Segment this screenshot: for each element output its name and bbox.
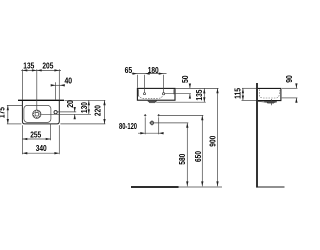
siphon outlet symbol	[149, 120, 154, 125]
dim 135 (front right, rim to drain bottom)	[156, 88, 206, 102]
dim 900 (rim height)	[176, 88, 219, 186]
svg-text:650: 650	[194, 151, 203, 162]
svg-text:135: 135	[23, 62, 34, 71]
basin front outline	[137, 88, 175, 100]
mounting bolts (front)	[144, 114, 160, 117]
dim 20 (tap hole CL to drain CL)	[41, 100, 91, 119]
dim 90 (side right)	[282, 75, 298, 103]
dim 340 (plan bottom)	[22, 125, 59, 154]
svg-text:130: 130	[80, 102, 89, 113]
svg-text:135: 135	[195, 89, 204, 100]
svg-text:65: 65	[125, 66, 133, 75]
floor (side view)	[257, 186, 285, 188]
dim 115 (side left)	[233, 88, 256, 101]
svg-text:255: 255	[30, 131, 41, 140]
inner bowl (plan view)	[24, 105, 51, 122]
svg-text:40: 40	[65, 77, 73, 86]
svg-text:580: 580	[178, 153, 187, 164]
dim 255 (plan bottom)	[22, 124, 50, 155]
drain below basin (side view)	[258, 99, 277, 105]
hidden bowl curve (front)	[139, 95, 163, 99]
svg-text:180: 180	[148, 66, 159, 75]
dim 135 (plan top)	[21, 62, 61, 110]
svg-text:80-120: 80-120	[119, 122, 137, 131]
svg-text:20: 20	[66, 100, 75, 108]
wall line (plan view, top)	[18, 99, 64, 101]
svg-text:205: 205	[42, 62, 53, 71]
dim 80-120 (bolt spacing)	[119, 117, 164, 134]
dim 205 (plan top)	[37, 62, 60, 100]
svg-text:175: 175	[0, 107, 7, 118]
dim 580 (siphon height)	[154, 123, 189, 186]
svg-text:340: 340	[36, 144, 47, 153]
dim 650 (bolt height)	[160, 115, 204, 186]
washbasin outer body (plan view)	[22, 100, 59, 124]
tap hole (front)	[144, 93, 146, 95]
overflow hole (front)	[163, 93, 165, 95]
svg-text:90: 90	[285, 75, 294, 83]
hidden bowl profile (side view)	[259, 89, 280, 98]
dim 50 (front right, rim to hole CL)	[165, 75, 191, 99]
tap hole (plan view)	[54, 111, 57, 114]
svg-text:50: 50	[181, 75, 190, 83]
dim 65 (front top)	[125, 66, 150, 93]
drain valve below basin (front)	[148, 100, 156, 102]
svg-text:220: 220	[93, 105, 102, 116]
basin profile (side view)	[258, 88, 281, 100]
wall (side view)	[256, 83, 258, 188]
floor line (front)	[131, 186, 179, 188]
dim 220 (plan right)	[60, 100, 105, 124]
inner rim lines (front)	[138, 89, 140, 96]
dim 175 (plan left)	[0, 105, 23, 124]
svg-text:900: 900	[209, 135, 218, 146]
dim 40 (tap hole to right edge)	[51, 77, 73, 100]
dim 180 (front top, hole to hole)	[148, 66, 167, 93]
dim 130 (wall to drain CL)	[80, 100, 90, 114]
drain assembly (plan view)	[33, 110, 41, 118]
svg-text:115: 115	[233, 88, 242, 99]
